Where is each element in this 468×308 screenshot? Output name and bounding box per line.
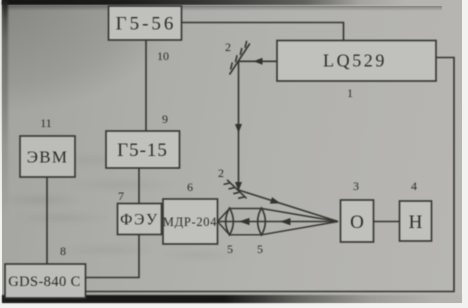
ray top lens L1 to МДР-204 [218,209,230,222]
svg-text:2: 2 [225,40,231,54]
box ЭВМ [20,136,75,177]
box H [400,201,432,241]
wire beam M2 to sample O [239,190,339,222]
svg-text:LQ529: LQ529 [323,51,387,71]
svg-text:8: 8 [60,244,66,258]
arrowhead axis between lenses [239,218,250,225]
svg-text:5: 5 [257,242,263,256]
svg-text:9: 9 [162,112,168,126]
svg-text:1: 1 [347,86,353,100]
svg-text:H: H [409,212,423,233]
svg-text:GDS-840 C: GDS-840 C [8,274,80,290]
mirror M1 [230,41,250,75]
svg-text:Г5-56: Г5-56 [116,14,177,35]
wire Г5-56 to Г5-15 [145,40,147,131]
svg-text:ЭВМ: ЭВМ [27,148,69,167]
box ФЭУ [118,204,162,235]
arrowhead on beam toward mirror M1 [254,58,263,65]
svg-text:2: 2 [218,166,224,180]
svg-text:3: 3 [353,179,359,193]
wire Г5-15 to ФЭУ [138,168,140,204]
svg-text:4: 4 [411,179,417,193]
ray bottom from O to lens L2 [262,222,339,235]
box GDS-840C [5,264,86,298]
svg-text:ФЭУ: ФЭУ [120,212,159,229]
wire LQ529 to mirror M1 [238,60,277,62]
lens L2 [258,208,266,235]
wire LQ529 right loop to GDS-840C [86,58,455,292]
mirror M2 [224,180,247,199]
box Г5-56 [109,6,182,40]
ray bottom between lenses [230,234,262,236]
svg-text:11: 11 [40,116,52,130]
ray top between lenses [230,208,262,210]
lens L1 [226,208,234,235]
svg-text:5: 5 [227,242,233,256]
svg-text:Г5-15: Г5-15 [117,140,168,161]
svg-text:МДР-204: МДР-204 [163,215,217,229]
svg-text:6: 6 [187,180,193,194]
ray top from O to lens L2 [262,209,339,222]
arrowhead on beam to O [270,197,281,204]
optical axis O to МДР-204 [218,221,339,223]
arrowhead axis right of lens L2 [280,218,291,225]
wire ФЭУ to GDS-840C [86,235,140,278]
box LQ529 [277,41,436,82]
arrowhead mid beam down [235,124,242,133]
ray bottom lens L1 to МДР-204 [218,222,230,235]
box МДР-204 [163,199,218,244]
wire Г5-56 to LQ529 [182,23,344,42]
svg-text:O: O [350,212,364,233]
wire vertical beam M1 to M2 [238,61,240,190]
arrowhead at mirror M2 down [235,182,242,191]
svg-text:10: 10 [157,49,169,63]
svg-text:7: 7 [118,189,124,203]
wire O to H [374,221,400,223]
box O sample [341,200,374,242]
box Г5-15 [106,131,180,168]
wire ЭВМ to GDS-840C [46,177,48,264]
